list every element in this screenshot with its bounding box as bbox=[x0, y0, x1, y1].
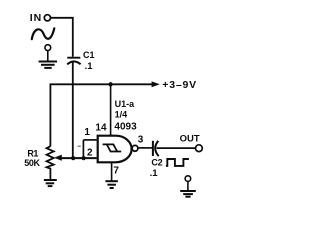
output bubble bbox=[132, 145, 138, 151]
ground A circle bbox=[45, 45, 51, 51]
junction dot tie bar bbox=[82, 156, 86, 160]
svg-text:50K: 50K bbox=[24, 158, 40, 168]
wire IN terminal to C1 top bbox=[51, 18, 73, 57]
svg-text:2: 2 bbox=[87, 147, 93, 158]
wire C2 to OUT terminal bbox=[157, 147, 196, 149]
wiper arrowhead bbox=[54, 155, 62, 161]
input tie bar bbox=[82, 140, 84, 158]
ground D stub bbox=[187, 181, 189, 191]
svg-text:4093: 4093 bbox=[114, 121, 137, 132]
ground D circle bbox=[185, 176, 191, 182]
pin 1 input wire bbox=[83, 139, 96, 141]
pin 2 input wire from R1 wiper bbox=[60, 157, 96, 159]
svg-text:R1: R1 bbox=[27, 148, 38, 158]
svg-text:C1: C1 bbox=[83, 50, 95, 60]
svg-text:C2: C2 bbox=[151, 158, 162, 168]
arrowhead +3-9V bbox=[152, 81, 160, 87]
ground B bars bbox=[44, 180, 57, 186]
OUT terminal circle bbox=[196, 145, 203, 152]
svg-text:OUT: OUT bbox=[180, 134, 200, 145]
stray mark bbox=[78, 145, 81, 147]
svg-text:.1: .1 bbox=[150, 168, 159, 179]
capacitor C2 curved plate bbox=[155, 141, 159, 156]
svg-text:14: 14 bbox=[95, 123, 107, 134]
svg-text:.1: .1 bbox=[85, 61, 94, 72]
NAND gate U1-a body bbox=[98, 136, 132, 163]
wire C1 bottom down to input net bbox=[72, 63, 74, 159]
svg-text:1: 1 bbox=[84, 127, 90, 138]
svg-text:1/4: 1/4 bbox=[115, 110, 128, 120]
pin 7 wire bbox=[111, 162, 113, 181]
svg-text:U1-a: U1-a bbox=[115, 99, 136, 109]
capacitor C1 curved plate bbox=[67, 61, 80, 64]
square wave symbol bbox=[166, 159, 189, 166]
ground A stub bbox=[47, 51, 49, 62]
output wire bubble to C2 bbox=[138, 147, 152, 149]
ground D bars bbox=[180, 191, 196, 197]
supply rail with R1 branch corner bbox=[50, 84, 152, 146]
ground C bars bbox=[105, 181, 118, 188]
IN terminal circle bbox=[44, 15, 50, 21]
wire pin 14 bbox=[110, 84, 112, 136]
svg-text:+3–9V: +3–9V bbox=[162, 79, 197, 91]
ground A bars bbox=[39, 62, 58, 68]
svg-text:7: 7 bbox=[113, 166, 119, 177]
capacitor C2 flat plate bbox=[152, 141, 154, 156]
sine source symbol bbox=[32, 28, 55, 39]
junction dot supply to pin 14 bbox=[108, 82, 112, 86]
junction dot input net bbox=[71, 156, 75, 160]
svg-text:3: 3 bbox=[138, 135, 144, 146]
capacitor C1 flat plate bbox=[67, 57, 80, 59]
svg-text:IN: IN bbox=[30, 12, 42, 24]
hysteresis symbol bbox=[103, 144, 118, 151]
resistor R1 zigzag bbox=[47, 146, 54, 179]
